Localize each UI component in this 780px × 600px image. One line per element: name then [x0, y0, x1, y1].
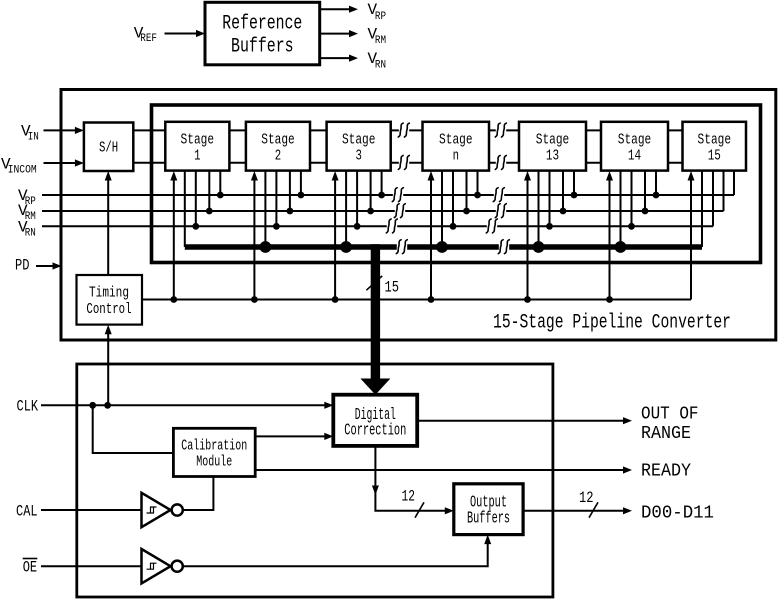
svg-text:OE: OE — [23, 559, 37, 577]
svg-text:12: 12 — [402, 488, 416, 506]
calibration module block — [173, 428, 255, 476]
wire OE — [41, 565, 142, 567]
stage n block — [423, 122, 490, 171]
svg-text:Stage: Stage — [698, 132, 732, 148]
stage 1 block — [165, 122, 229, 171]
wire digital correction to output buffers — [375, 446, 445, 511]
svg-text:1: 1 — [194, 148, 200, 164]
schmitt buffer OE — [142, 549, 171, 583]
converter outer box — [61, 90, 776, 341]
stage 3 taps — [335, 171, 382, 300]
wire clock distribution — [142, 299, 691, 301]
svg-text:READY: READY — [641, 462, 691, 482]
stage 2 taps — [254, 171, 301, 300]
wire VIN — [44, 129, 77, 131]
svg-text:INCOM: INCOM — [8, 164, 37, 176]
svg-text:Calibration: Calibration — [181, 438, 247, 454]
svg-text:Module: Module — [196, 454, 232, 470]
wire VINCOM — [44, 162, 77, 164]
svg-text:Buffers: Buffers — [467, 509, 510, 528]
stage 14 block — [601, 122, 668, 171]
timing control block — [77, 275, 143, 325]
svg-text:RN: RN — [25, 228, 36, 240]
svg-text:Stage: Stage — [261, 132, 295, 148]
bus width slash 12 output — [589, 502, 598, 517]
svg-text:REF: REF — [140, 33, 157, 45]
wire S/H clock — [107, 180, 109, 275]
node CLK junction 2 — [104, 402, 111, 409]
svg-text:Correction: Correction — [344, 420, 406, 439]
svg-text:Control: Control — [86, 302, 131, 318]
wire OUT OF RANGE — [417, 420, 624, 422]
break marks group 2 — [495, 123, 506, 137]
svg-text:2: 2 — [275, 148, 281, 164]
svg-text:IN: IN — [28, 131, 39, 143]
wire calibration to digital correction — [255, 435, 325, 437]
wire VREF — [165, 33, 198, 35]
svg-text:Buffers: Buffers — [231, 36, 294, 59]
bus width slash 15 — [366, 276, 382, 290]
pipeline inner box — [152, 105, 761, 263]
output buffers block — [454, 484, 523, 535]
digital correction block — [333, 395, 417, 446]
svg-text:S/H: S/H — [99, 140, 118, 156]
wire D00-D11 — [523, 510, 624, 512]
svg-text:Stage: Stage — [536, 132, 570, 148]
svg-text:D00-D11: D00-D11 — [641, 504, 714, 524]
svg-text:15: 15 — [385, 278, 400, 296]
svg-text:RANGE: RANGE — [641, 424, 691, 444]
svg-text:Stage: Stage — [439, 132, 473, 148]
digital section box — [77, 364, 553, 597]
svg-text:15-Stage Pipeline Converter: 15-Stage Pipeline Converter — [493, 312, 731, 335]
stage 3 block — [327, 122, 391, 171]
wire CAL — [41, 509, 142, 511]
svg-text:14: 14 — [628, 148, 641, 164]
svg-text:RM: RM — [375, 35, 386, 47]
svg-text:CAL: CAL — [16, 502, 38, 520]
wire inter-stage bottom — [110, 162, 746, 164]
svg-text:12: 12 — [579, 489, 594, 507]
svg-text:RN: RN — [375, 60, 386, 72]
node CLK junction 1 — [89, 402, 96, 409]
stage 13 block — [519, 122, 586, 171]
schmitt buffer CAL — [142, 493, 171, 527]
svg-text:PD: PD — [15, 257, 29, 275]
svg-text:RP: RP — [375, 11, 386, 23]
stage 15 block — [683, 122, 747, 171]
stage 15 taps — [691, 171, 734, 300]
svg-text:3: 3 — [356, 148, 362, 164]
svg-text:Stage: Stage — [618, 132, 652, 148]
wire VRM rail — [42, 210, 724, 212]
svg-text:Reference: Reference — [222, 12, 302, 35]
junction dots residue bus — [260, 241, 627, 253]
svg-text:n: n — [453, 148, 459, 164]
bus drop to digital correction — [371, 244, 380, 379]
wire READY — [255, 469, 624, 471]
junction dots clock line — [170, 296, 612, 303]
wire VRN output — [320, 57, 350, 59]
wire OE gate to output buffers — [184, 543, 488, 566]
svg-text:13: 13 — [546, 148, 559, 164]
svg-text:CLK: CLK — [17, 397, 39, 415]
wire VRN rail — [42, 225, 713, 227]
wire VRP output — [320, 8, 350, 10]
wire VRP rail — [42, 194, 734, 196]
svg-text:Stage: Stage — [342, 132, 376, 148]
junction dots VRP — [217, 192, 659, 199]
bus width slash 12 internal — [415, 502, 424, 517]
wire residue bus — [185, 244, 702, 250]
wire inter-stage top — [110, 129, 746, 131]
svg-text:Timing: Timing — [89, 286, 129, 302]
wire CAL gate to calibration module — [184, 477, 214, 511]
wire PD — [36, 265, 54, 267]
reference buffers block — [205, 2, 320, 65]
wire VRM output — [320, 33, 350, 35]
stage 13 taps — [528, 171, 575, 300]
svg-text:15: 15 — [708, 148, 721, 164]
stage 2 block — [246, 122, 310, 171]
break marks group 1 — [398, 123, 409, 137]
stage 1 taps — [174, 171, 221, 300]
S/H block — [84, 123, 133, 172]
junction dots VRN — [192, 223, 634, 230]
stage n taps — [431, 171, 478, 300]
stage 14 taps — [610, 171, 657, 300]
junction dots VRM — [206, 208, 648, 215]
wire timing control input — [107, 334, 109, 406]
svg-text:OUT OF: OUT OF — [641, 405, 699, 425]
wire CLK — [41, 404, 325, 406]
wire CLK to calibration — [93, 405, 174, 453]
svg-text:Stage: Stage — [181, 132, 215, 148]
